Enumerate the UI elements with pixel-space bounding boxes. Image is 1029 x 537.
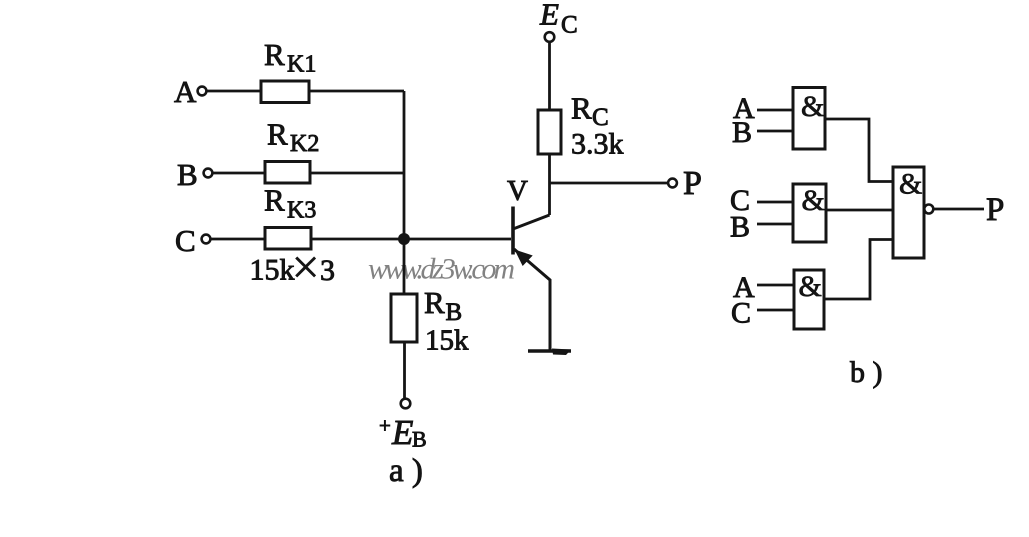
svg-text:R: R [571,91,592,126]
svg-text:B: B [730,211,750,244]
svg-text:C: C [731,297,751,330]
svg-text:K3: K3 [287,198,316,224]
svg-text:15k: 15k [250,254,295,287]
svg-text:b ): b ) [850,356,883,389]
svg-text:B: B [446,299,463,326]
svg-text:&: & [802,184,825,217]
svg-text:V: V [507,175,528,207]
svg-text:3.3k: 3.3k [571,128,624,161]
svg-text:B: B [412,427,427,452]
svg-text:K2: K2 [290,131,319,157]
svg-text:&: & [799,270,822,303]
svg-text:P: P [683,165,702,202]
svg-text:R: R [424,285,445,320]
svg-text:www.dz3w.com: www.dz3w.com [368,253,515,286]
svg-text:R: R [264,37,285,72]
svg-text:B: B [732,116,752,149]
svg-text:15k: 15k [425,325,469,357]
svg-text:3: 3 [320,254,335,287]
svg-text:a ): a ) [389,453,423,489]
svg-text:E: E [539,0,559,32]
svg-text:K1: K1 [287,52,316,78]
svg-text:P: P [986,192,1004,228]
svg-text:C: C [175,223,196,258]
svg-text:×: × [292,239,320,295]
svg-text:&: & [801,90,824,123]
svg-text:E: E [391,413,413,452]
svg-text:A: A [174,74,197,109]
svg-text:B: B [177,157,198,192]
svg-text:C: C [561,12,578,39]
svg-text:&: & [899,168,922,201]
svg-text:R: R [264,183,285,218]
svg-text:R: R [267,117,288,152]
svg-text:+: + [379,414,391,438]
